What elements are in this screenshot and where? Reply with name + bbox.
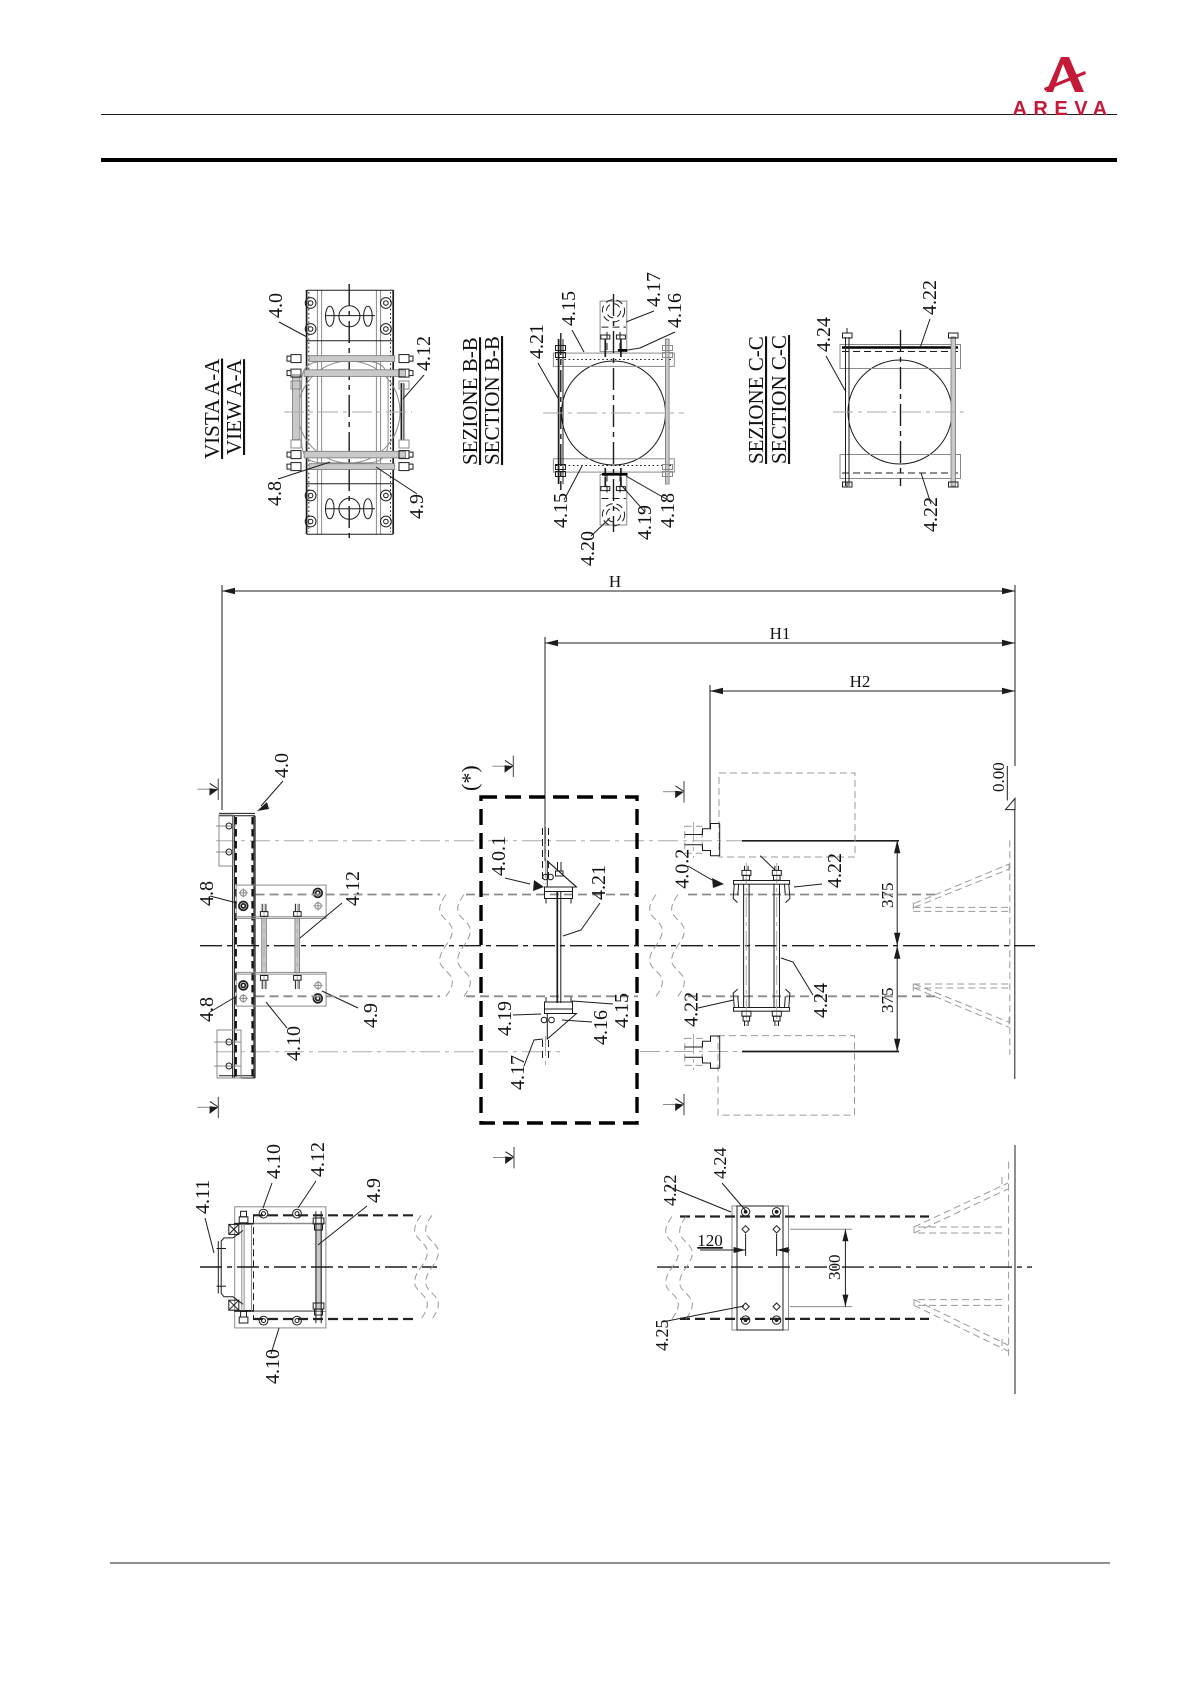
svg-text:VISTA A-A: VISTA A-A xyxy=(200,358,224,459)
svg-text:4.12: 4.12 xyxy=(342,871,364,906)
svg-text:4.22: 4.22 xyxy=(919,280,941,315)
svg-text:4.24: 4.24 xyxy=(810,983,832,1018)
svg-text:SEZIONE C-C: SEZIONE C-C xyxy=(744,336,768,464)
svg-text:4.9: 4.9 xyxy=(406,494,428,519)
svg-text:4.18: 4.18 xyxy=(657,493,679,528)
svg-text:SECTION C-C: SECTION C-C xyxy=(767,335,791,464)
svg-text:H2: H2 xyxy=(850,672,871,691)
svg-text:4.12: 4.12 xyxy=(307,1142,329,1177)
svg-text:120: 120 xyxy=(697,1231,723,1250)
svg-text:4.24: 4.24 xyxy=(710,1148,730,1180)
svg-text:4.10: 4.10 xyxy=(262,1349,284,1384)
svg-text:4.9: 4.9 xyxy=(363,1178,385,1203)
svg-text:4.17: 4.17 xyxy=(643,272,665,307)
svg-text:375: 375 xyxy=(878,988,897,1014)
svg-text:4.10: 4.10 xyxy=(283,1026,305,1061)
svg-text:4.11: 4.11 xyxy=(192,1180,214,1214)
svg-text:4.25: 4.25 xyxy=(652,1320,672,1352)
svg-text:(*): (*) xyxy=(457,765,482,791)
svg-text:4.15: 4.15 xyxy=(611,993,633,1028)
svg-text:SEZIONE B-B: SEZIONE B-B xyxy=(458,337,482,465)
svg-text:AREVA: AREVA xyxy=(1012,98,1113,120)
svg-text:4.0: 4.0 xyxy=(271,753,293,778)
svg-text:4.16: 4.16 xyxy=(664,293,686,328)
svg-text:4.19: 4.19 xyxy=(494,1001,516,1036)
svg-text:0.00: 0.00 xyxy=(989,762,1008,792)
svg-text:4.21: 4.21 xyxy=(526,324,548,359)
svg-text:SECTION B-B: SECTION B-B xyxy=(480,336,504,465)
svg-text:4.12: 4.12 xyxy=(413,336,435,371)
svg-text:4.8: 4.8 xyxy=(264,481,286,506)
svg-text:4.0.1: 4.0.1 xyxy=(488,836,510,876)
svg-text:4.22: 4.22 xyxy=(681,992,703,1027)
svg-text:4.16: 4.16 xyxy=(590,1010,612,1045)
svg-text:4.15: 4.15 xyxy=(550,493,572,528)
svg-text:H: H xyxy=(609,572,621,591)
svg-text:4.0.2: 4.0.2 xyxy=(671,849,693,889)
svg-text:4.22: 4.22 xyxy=(920,497,942,532)
svg-text:4.8: 4.8 xyxy=(196,881,218,906)
svg-text:4.20: 4.20 xyxy=(577,531,599,566)
svg-text:4.24: 4.24 xyxy=(813,317,835,352)
svg-text:4.15: 4.15 xyxy=(558,291,580,326)
svg-text:VIEW A-A: VIEW A-A xyxy=(222,358,246,455)
svg-text:4.10: 4.10 xyxy=(263,1144,285,1179)
svg-text:4.9: 4.9 xyxy=(360,1003,382,1028)
svg-text:4.19: 4.19 xyxy=(634,505,656,540)
svg-text:4.21: 4.21 xyxy=(588,865,610,900)
svg-text:4.0: 4.0 xyxy=(265,293,287,318)
svg-text:300: 300 xyxy=(825,1255,844,1281)
svg-text:4.22: 4.22 xyxy=(824,853,846,888)
svg-text:H1: H1 xyxy=(770,624,791,643)
